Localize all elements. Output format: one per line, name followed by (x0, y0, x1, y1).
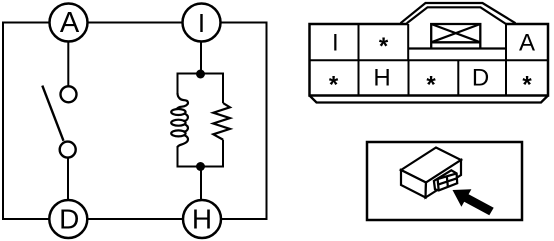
svg-text:I: I (332, 29, 339, 56)
callout frame (367, 142, 522, 220)
terminal A (50, 4, 88, 42)
wire node to H (200, 167, 202, 201)
relay box top row divider 2 (407, 24, 409, 60)
inductor L coil loop 3 (171, 130, 185, 136)
terminal D (49, 200, 87, 238)
svg-text:*: * (522, 71, 532, 98)
relay box bottom row divider 2 (408, 60, 410, 95)
relay box top row divider 3 (505, 24, 507, 60)
wire A to switch (67, 42, 69, 87)
arrow (453, 189, 494, 215)
wire I to node (200, 42, 202, 74)
svg-text:*: * (379, 33, 389, 60)
relay unit top face (401, 148, 461, 183)
parallel branch frame wires (178, 74, 224, 167)
connector top face edge (438, 173, 457, 179)
relay cover outer roof (401, 3, 516, 23)
relay box bottom row divider 1 (358, 60, 360, 95)
relay box base trapezoid (310, 96, 549, 103)
connector left face edge (438, 179, 439, 190)
relay box top row divider 1 (358, 24, 360, 60)
crossed relay slot box (431, 24, 480, 48)
svg-text:H: H (373, 64, 390, 91)
junction node bottom (196, 162, 205, 171)
inductor L loop connector 1 (183, 114, 188, 121)
terminal H (183, 200, 221, 238)
relay unit end face (426, 160, 462, 198)
connector grid divider horizontal (438, 178, 457, 184)
terminal I (183, 4, 221, 42)
svg-text:D: D (59, 204, 79, 235)
relay cover inner roof (407, 7, 506, 24)
svg-text:H: H (192, 204, 212, 235)
relay unit front face (401, 170, 426, 198)
svg-text:D: D (472, 64, 489, 91)
resistor R zigzag (213, 103, 230, 140)
inductor L bottom hook (178, 135, 189, 147)
connector silhouette (434, 170, 457, 190)
wire switch to D (67, 157, 69, 200)
relay shelf (408, 47, 506, 49)
crossed relay slot X (431, 24, 480, 42)
relay box bottom row divider 3 (457, 60, 459, 95)
relay box main outline (top edge open between roof section) (310, 24, 549, 96)
svg-text:A: A (519, 29, 535, 56)
relay box row divider (310, 59, 549, 61)
outer circuit loop wire (3, 23, 267, 220)
switch blade (42, 86, 63, 141)
switch contact bottom (60, 142, 76, 158)
svg-text:*: * (426, 71, 436, 98)
svg-text:A: A (60, 7, 80, 39)
junction node top (196, 70, 205, 79)
relay box bottom row divider 4 (505, 60, 507, 95)
inductor L loop connector 2 (183, 124, 188, 131)
connector grid divider vertical (447, 176, 448, 187)
switch contact top (61, 86, 77, 102)
svg-text:I: I (198, 8, 205, 38)
inductor L coil loop 2 (171, 120, 185, 126)
inductor L top hook (177, 93, 188, 109)
svg-text:*: * (329, 71, 339, 98)
inductor L coil loop 1 (171, 109, 185, 115)
